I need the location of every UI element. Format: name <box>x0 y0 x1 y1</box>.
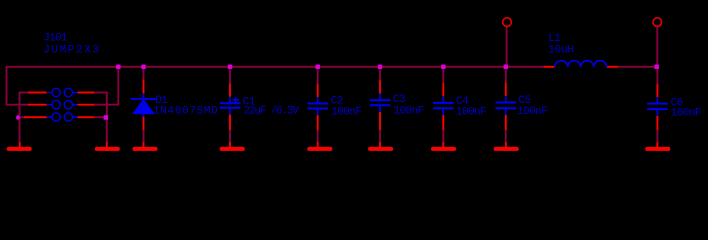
ground at C6 <box>645 142 670 151</box>
capacitor C4 <box>433 83 454 130</box>
wire rail right of L1 <box>618 66 657 68</box>
ground at C3 <box>368 142 393 151</box>
junction dot J101 left <box>16 115 20 120</box>
ground at C5 <box>494 142 519 151</box>
wire C6 top <box>656 67 658 84</box>
power port left <box>503 18 512 27</box>
svg-text:10uH: 10uH <box>548 45 574 57</box>
wire C2 bottom <box>317 130 319 142</box>
anode triangle <box>133 100 154 114</box>
capacitor C3 <box>370 80 391 130</box>
ground at C2 <box>307 142 332 151</box>
wire power port right stem <box>656 26 658 67</box>
wire C1 top <box>229 67 231 84</box>
wire C2 top <box>317 67 319 84</box>
ground at J101 left <box>7 142 32 151</box>
ground at C1 <box>220 142 245 151</box>
svg-text:100nF: 100nF <box>671 107 701 119</box>
pin bottom red <box>143 116 145 130</box>
wire C5 top <box>505 67 507 83</box>
wire C3 top <box>379 67 381 81</box>
wire rail drop at x=118.3 <box>117 67 119 105</box>
junction dot J101 right <box>104 115 109 120</box>
diode D1 <box>131 79 157 130</box>
svg-text:JUMP2X3: JUMP2X3 <box>43 44 100 56</box>
plus sign <box>232 97 239 103</box>
blue stubs <box>143 94 145 117</box>
wire C5 bottom <box>505 130 507 142</box>
wire C4 top <box>442 67 444 83</box>
svg-text:100nF: 100nF <box>394 105 424 117</box>
pin top red <box>143 79 145 93</box>
svg-text:22uF /6.3V: 22uF /6.3V <box>244 106 300 118</box>
wire J101 row1 right to vertical <box>94 92 107 94</box>
wire C4 bottom <box>442 130 444 142</box>
svg-text:100nF: 100nF <box>456 107 486 119</box>
connector J101 pins (red) <box>24 93 94 118</box>
wire D1 bottom <box>143 130 145 142</box>
power port right <box>653 18 662 27</box>
wire C3 bottom <box>379 130 381 142</box>
wire power port left stem <box>506 26 508 67</box>
wire C6 bottom <box>656 130 658 142</box>
svg-text:1N4007SMD: 1N4007SMD <box>153 106 218 118</box>
ground at J101 right <box>95 142 120 151</box>
wire J101 row3 right to vertical <box>94 116 107 118</box>
cathode bar <box>131 98 157 100</box>
wire J101 row2 right to rail drop <box>94 104 119 106</box>
capacitor C2 <box>307 84 328 131</box>
svg-text:C3: C3 <box>393 94 405 106</box>
ground at C4 <box>431 142 456 151</box>
svg-text:100nF: 100nF <box>517 106 547 118</box>
capacitor C6 <box>647 84 668 131</box>
capacitor C1 (polarized) <box>220 83 241 130</box>
wire C1 bottom <box>229 130 231 142</box>
junction dots on rail <box>116 65 659 70</box>
wire rail left drop to J101 row2 <box>7 66 29 105</box>
svg-text:100nF: 100nF <box>331 106 361 118</box>
svg-text:L1: L1 <box>548 33 561 45</box>
wire J101 row3 left stub <box>19 116 26 118</box>
wire J101 right row1-row3-ground vertical <box>106 93 108 142</box>
capacitor C5 <box>496 83 517 131</box>
wire main +V rail <box>7 66 544 68</box>
wire D1 top <box>143 67 145 80</box>
wire J101 left row1-row3-ground vertical <box>19 92 21 142</box>
inductor L1 <box>543 61 618 67</box>
connector J101 circles and stubs (blue) <box>47 88 78 121</box>
ground at D1 <box>133 142 158 151</box>
wire J101 row1 left stub <box>19 92 28 94</box>
svg-text:J101: J101 <box>43 33 68 45</box>
